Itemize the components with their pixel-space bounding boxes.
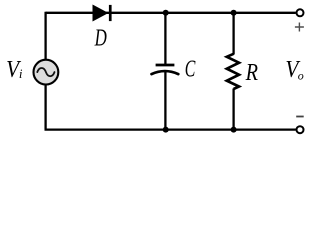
node junction top of R xyxy=(231,10,237,16)
resistor R xyxy=(227,54,258,89)
capacitor C xyxy=(152,57,197,83)
node junction bottom of C xyxy=(163,127,169,133)
svg-text:i: i xyxy=(19,66,23,81)
wire bottom horizontal xyxy=(45,128,296,130)
node junction bottom of R xyxy=(231,127,237,133)
svg-text:R: R xyxy=(245,60,259,86)
svg-text:D: D xyxy=(94,25,107,51)
terminal - bottom right xyxy=(296,117,304,134)
label Vo xyxy=(285,57,303,83)
terminal + top right xyxy=(295,9,304,31)
node junction top of C xyxy=(163,10,169,16)
svg-text:C: C xyxy=(185,57,196,83)
svg-text:o: o xyxy=(298,68,304,82)
wire capacitor top lead xyxy=(164,13,166,64)
wire resistor bottom lead xyxy=(232,89,234,130)
wire top horizontal xyxy=(46,12,296,14)
wire resistor top lead xyxy=(232,13,234,55)
wire capacitor bottom lead xyxy=(164,71,166,129)
diode D xyxy=(93,5,112,52)
wire left vertical xyxy=(44,12,46,130)
source Vi xyxy=(6,57,58,85)
